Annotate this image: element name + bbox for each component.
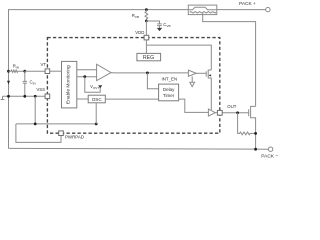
wire comparator output — [111, 72, 188, 74]
wire VSS rail — [3, 95, 46, 97]
wire pad rail — [16, 123, 96, 125]
block Delay Timer — [159, 84, 179, 101]
wire OUT external — [222, 112, 249, 114]
wire OSC ground — [95, 103, 97, 124]
capacitor CIN — [24, 71, 26, 81]
pin VSS — [45, 94, 50, 99]
svg-text:Enable Monitoring: Enable Monitoring — [65, 65, 71, 104]
wire VSS drop to pad rail — [34, 96, 36, 124]
svg-text:RVB: RVB — [132, 13, 139, 19]
svg-text:Timer: Timer — [163, 93, 175, 98]
transistor Q2 internal FET — [206, 70, 211, 111]
node junction pad rail OSC — [95, 123, 98, 126]
wire block to comparator plus — [77, 69, 97, 71]
IC dashed boundary — [47, 38, 219, 134]
node junction VSS rail drop — [34, 95, 37, 98]
svg-text:PACK +: PACK + — [239, 1, 256, 7]
buffer U3 output driver — [208, 109, 215, 116]
svg-text:VOVT: VOVT — [90, 84, 99, 90]
svg-text:CIN: CIN — [30, 79, 36, 85]
svg-text:VDD: VDD — [135, 30, 144, 35]
svg-text:VSS: VSS — [36, 87, 45, 92]
svg-text:INT_EN: INT_EN — [162, 76, 178, 81]
svg-text:OSC: OSC — [92, 97, 103, 102]
ground stub left — [2, 96, 4, 99]
wire block to comparator minus — [77, 76, 97, 78]
resistor gate pulldown — [238, 113, 256, 135]
capacitor CVB — [157, 24, 162, 26]
fuse heater resistor — [190, 12, 216, 13]
regulator REG box — [137, 53, 161, 60]
svg-text:OUT: OUT — [227, 104, 236, 109]
wire buffer to OUT pin — [215, 112, 217, 114]
node junction bottom rail — [254, 148, 257, 151]
wire delay timer to out buffer — [179, 99, 209, 112]
svg-text:RIN: RIN — [13, 64, 19, 70]
node junction left wire / RIN — [7, 70, 10, 73]
pin PWRPAD — [59, 131, 64, 136]
svg-text:REG: REG — [143, 55, 154, 61]
node junction bottom of RVB — [145, 20, 148, 23]
svg-text:CVB: CVB — [163, 22, 170, 28]
resistor RVB — [145, 10, 148, 21]
node junction RIN / CIN — [23, 70, 26, 73]
wire fuse to PACK+ — [217, 9, 266, 11]
oscillator OSC box — [88, 95, 105, 103]
pin VDD — [144, 35, 149, 40]
wire block to OSC — [77, 98, 88, 100]
pin OUT — [217, 110, 222, 115]
fuse F1 box — [188, 5, 217, 15]
wire to CVB — [146, 21, 159, 24]
ground arrow under buffer — [190, 76, 195, 86]
terminal PACK- — [268, 147, 272, 151]
wire bottom PACK- rail — [9, 147, 269, 150]
ground under CVB — [159, 26, 161, 28]
wire buffer to gate — [196, 72, 206, 74]
current arrow on left wire — [7, 81, 10, 85]
svg-text:PACK −: PACK − — [261, 153, 278, 158]
op-amp comparator U1 — [97, 64, 111, 81]
node junction VOVT — [83, 75, 86, 78]
pin VT — [45, 69, 50, 74]
node junction left wire / VSS rail — [7, 95, 10, 98]
resistor RIN — [9, 70, 25, 72]
terminal PACK+ — [266, 7, 270, 11]
node junction pad rail left — [34, 123, 37, 126]
reference arrow VOVT — [98, 85, 102, 88]
svg-text:Delay: Delay — [163, 87, 175, 92]
block Enable Monitoring — [62, 61, 77, 108]
wire OSC to delay timer — [105, 98, 158, 100]
wire VDD down — [145, 21, 147, 35]
svg-text:VT: VT — [41, 62, 47, 67]
transistor Q1 external NFET — [249, 106, 256, 149]
fuse element — [188, 7, 217, 10]
svg-text:PWRPAD: PWRPAD — [65, 135, 84, 140]
node junction gate — [236, 111, 239, 114]
wire fuse heater tap — [203, 13, 256, 106]
node junction top of RVB — [145, 8, 148, 11]
wire VOVT loop — [85, 77, 100, 93]
node junction FET source / resistor — [254, 132, 257, 135]
node junction INT_EN — [146, 72, 149, 75]
buffer U2 INT_EN driver — [188, 70, 196, 76]
wire INT_EN to delay timer — [147, 73, 158, 89]
wire VDD internal — [145, 40, 147, 54]
node junction CIN / VSS rail — [23, 95, 26, 98]
wire PWRPAD loop — [16, 124, 61, 142]
body arrow Q2 — [208, 74, 211, 76]
wire VT to block — [50, 70, 62, 72]
wire VDD rail to FET — [146, 45, 211, 70]
wire to VT pin — [25, 70, 45, 72]
wire PACK+ top rail — [9, 10, 189, 149]
